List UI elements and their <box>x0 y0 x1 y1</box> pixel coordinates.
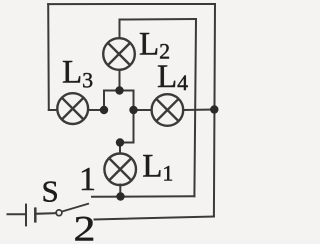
wire outer bottom (terminal 2) <box>95 217 214 220</box>
battery long plate <box>25 204 27 227</box>
battery short plate <box>34 207 37 222</box>
wire L3 left lead <box>49 109 58 111</box>
wire inner right vertical <box>194 19 196 196</box>
lamp L2 <box>103 38 135 70</box>
wire L2 bottom lead <box>119 70 121 91</box>
node B junction dot <box>115 86 123 94</box>
wire outer top <box>48 3 215 5</box>
node D junction dot <box>129 106 137 114</box>
svg-text:S: S <box>42 174 59 209</box>
wire node C up <box>103 91 105 111</box>
wire L2 top lead <box>119 20 121 39</box>
node E junction dot <box>116 138 124 146</box>
wire inner bottom (terminal 1) <box>92 195 194 198</box>
wire L1 top lead <box>119 143 121 154</box>
wire B right down to node D <box>133 91 135 111</box>
switch S blade <box>62 204 89 212</box>
wire outer right vertical <box>214 4 215 217</box>
lamp L3 <box>57 93 88 124</box>
switch S pivot <box>56 210 62 216</box>
svg-text:2: 2 <box>74 208 96 244</box>
node F junction dot (L1 bottom) <box>116 192 124 200</box>
svg-text:1: 1 <box>79 161 96 198</box>
wire inner top <box>120 18 197 21</box>
wire battery to switch <box>35 212 56 215</box>
lamp L1 <box>104 154 136 186</box>
wire battery left <box>8 213 27 215</box>
node C junction dot <box>100 106 108 114</box>
lamp L4 <box>152 94 184 126</box>
wire outer left vertical <box>47 4 50 110</box>
wire L1 bottom lead <box>119 185 121 197</box>
wire L3 right lead to node C <box>88 109 104 111</box>
wire horizontal C to D top <box>104 90 134 92</box>
wire to node E <box>120 142 134 144</box>
wire node D down <box>133 110 135 143</box>
node G junction dot (L4 right) <box>210 105 218 113</box>
wire L4 left lead <box>134 109 152 111</box>
wire L4 right lead <box>184 109 215 112</box>
